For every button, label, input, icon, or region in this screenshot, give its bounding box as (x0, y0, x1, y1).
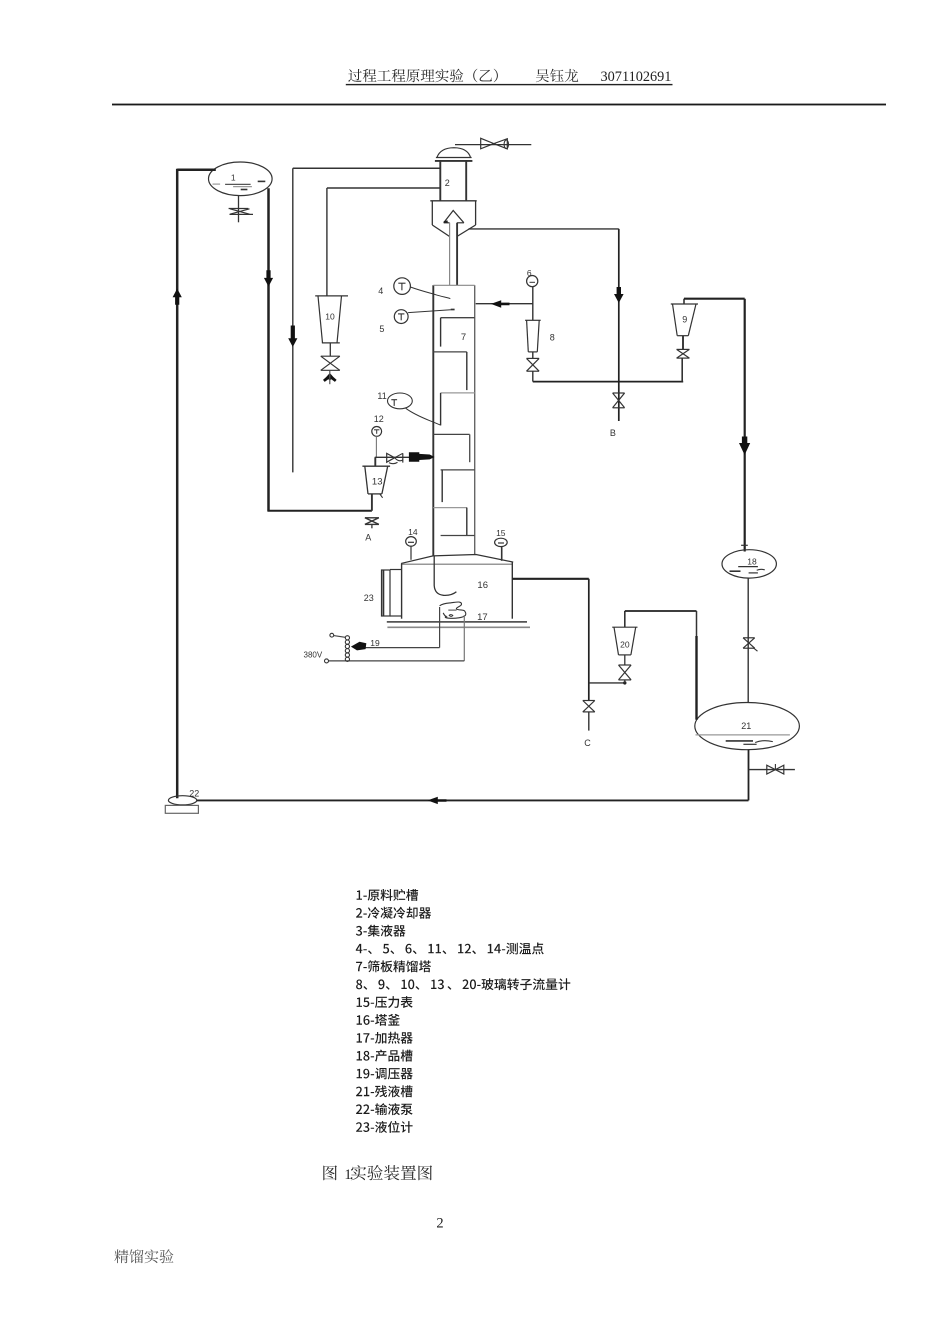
pump 22 base (165, 805, 198, 813)
svg-text:23: 23 (364, 593, 374, 603)
vapour arrow hollow in collector 3 (444, 211, 464, 223)
flow arrow left on bottom return line (428, 797, 447, 804)
svg-text:2: 2 (436, 1216, 443, 1232)
feed tank 1 liquid level marks (225, 183, 251, 185)
vapour duct left wall (449, 223, 451, 285)
collector 3 left wall (431, 201, 433, 225)
regulator 19 coil circles (345, 636, 349, 640)
vent valve disc (504, 140, 508, 149)
residue tank 21 level dashes (726, 740, 753, 742)
feed tank 1 drain stub pipe (238, 196, 240, 223)
pressure gauge 15 stem (501, 547, 503, 561)
residue riser down to valve C (588, 579, 590, 701)
legend line 22-输液泵 (356, 1103, 413, 1115)
reboiler outlet line to the right (512, 578, 589, 580)
return pipe into tank 1 (177, 169, 216, 172)
downcomer 2 (466, 352, 468, 390)
valve between tank 18 and tank 21 (743, 637, 755, 639)
terminal link wire (334, 636, 346, 638)
sight glass 23 top stub (390, 569, 402, 571)
branch line to rotameter 20 (589, 682, 625, 684)
flow arrow down on distillate riser (614, 287, 624, 303)
junction dot at rotameter 20 branch (623, 681, 626, 684)
svg-text:10: 10 (325, 312, 335, 322)
liquid gather line between rotameters 8 and 9 (533, 381, 683, 383)
tray 4 (433, 433, 469, 435)
feed arrow black into column (409, 452, 435, 462)
downcomer 5 (441, 470, 443, 502)
rotameter 9 outlet stub (682, 336, 684, 350)
heater power wire 2 vertical (463, 615, 465, 661)
vapour duct right wall (456, 223, 458, 285)
header name text 吴钰龙 (536, 69, 578, 82)
tick near tank 18 inlet (741, 544, 748, 546)
pipe down into tank 21 (696, 611, 698, 636)
tray 1 (441, 317, 475, 319)
temperature point 12 stem (375, 436, 377, 457)
product right riser down to tank 18 (744, 299, 746, 552)
footer text 精馏实验 (114, 1249, 173, 1263)
legend line 1-原料贮槽 (357, 889, 419, 901)
svg-text:6: 6 (527, 268, 532, 278)
temperature point 12 circle (372, 427, 382, 437)
condenser 2 dome base lines (436, 157, 472, 159)
header horizontal rule (112, 104, 886, 106)
condenser 2 vent line (455, 144, 531, 146)
rotameter 20 top stub (624, 611, 626, 627)
product top line to right riser (684, 298, 745, 300)
reboiler 16 right wall (511, 562, 513, 619)
legend line 16-塔釜 (357, 1014, 400, 1026)
rotameter 8 outlet stub (532, 352, 534, 359)
pressure gauge 15 circle (495, 538, 508, 546)
residue tank 21 ellipse (695, 703, 800, 750)
collector 3 right wall (475, 201, 477, 225)
legend line 7-筛板精馏塔 (356, 960, 431, 972)
valve below rotameter 20 (619, 664, 632, 666)
svg-text:4: 4 (378, 286, 383, 296)
tank 21 bottom outlet pipe (748, 750, 750, 801)
legend line 17-加热器 (357, 1032, 413, 1044)
product tank 18 level marks (738, 566, 758, 568)
svg-text:15: 15 (496, 528, 506, 538)
column 7 top edge (433, 284, 474, 286)
pump 22 ellipse (168, 796, 196, 805)
column 7 right wall (474, 285, 476, 554)
legend line 4-、5、6、11、12、14-测温点 (356, 943, 544, 955)
leader line from T11 into column (406, 408, 441, 425)
reboiler 16 left wall (401, 563, 403, 618)
heater 17 element blob (440, 602, 466, 618)
rotameter 13 bottom stub (371, 494, 373, 511)
feed valve bowtie (387, 453, 395, 462)
svg-text:14: 14 (408, 527, 418, 537)
svg-text:16: 16 (477, 580, 488, 591)
downcomer 1 (440, 318, 442, 347)
rotameter 8 funnel (525, 319, 541, 321)
residue tank 21 liquid level chord (696, 734, 790, 736)
feed stub from line down into rotameter 13 (374, 457, 376, 466)
cooling water drain riser (292, 168, 294, 472)
cooling water second line to condenser (327, 187, 440, 189)
tray 3 (441, 392, 475, 394)
rotameter 20 funnel (612, 626, 637, 628)
collector 3 right slant (457, 225, 476, 237)
legend line 8、9、10、13、20-玻璃转子流量计 (356, 978, 570, 990)
reboiler base line upper (387, 621, 527, 623)
legend line 18-产品槽 (357, 1050, 413, 1062)
flow arrow down on feed pipe (264, 270, 273, 286)
valve below rotameter 8 (527, 357, 540, 359)
flow arrow down on drain riser (288, 326, 297, 348)
flow arrow up on left riser (173, 289, 182, 305)
feed line into column (375, 456, 434, 458)
feed tank 1 ellipse (209, 162, 273, 196)
rotameter 10 funnel (315, 295, 348, 297)
tank 21 drain valve bowtie (767, 765, 776, 774)
svg-text:21: 21 (741, 721, 751, 731)
flow arrow down on product riser (739, 437, 750, 456)
temperature point 14 stem (410, 546, 412, 560)
vent valve bowtie (481, 138, 494, 149)
tray 7 (441, 535, 475, 537)
svg-text:17: 17 (477, 612, 488, 623)
svg-text:C: C (584, 738, 591, 748)
svg-text:2: 2 (445, 178, 450, 188)
feed pipe bottom horizontal run (267, 510, 372, 512)
collector 3 top edge (430, 200, 476, 202)
legend line 2-冷凝冷却器 (356, 907, 431, 919)
temperature point 5 circle (394, 310, 408, 324)
valve C hourglass (583, 700, 595, 702)
tank 21 side drain stub (749, 769, 795, 771)
legend line 15-压力表 (357, 996, 413, 1008)
valve B hourglass (613, 392, 625, 394)
svg-text:8: 8 (550, 333, 555, 343)
svg-text:11: 11 (377, 391, 386, 401)
condenser 2 shell walls (439, 161, 441, 201)
temperature point 6 stem (532, 287, 534, 321)
svg-text:B: B (610, 428, 616, 438)
downcomer seal hook inside reboiler (434, 556, 456, 595)
reboiler 16 dome outline (401, 555, 513, 564)
product tank 18 ellipse (722, 550, 776, 578)
reflux return arrow (491, 300, 510, 308)
heater power wire 1 horizontal (362, 647, 440, 649)
header underline (346, 84, 673, 85)
reboiler base line lower (387, 626, 530, 628)
svg-text:7: 7 (461, 332, 466, 343)
rotameter 10 outlet stub (329, 343, 331, 356)
svg-text:19: 19 (370, 638, 380, 648)
valve below rotameter 10 (321, 355, 340, 357)
pipe from tank 18 down to tank 21 (747, 578, 749, 702)
temperature point 11 ellipse (388, 393, 413, 409)
supply terminal top circle (330, 633, 334, 637)
temperature point 4 circle (394, 278, 411, 295)
svg-text:1: 1 (231, 173, 236, 183)
reboiler 16 top rim line (402, 563, 513, 565)
rotameter 13 funnel (362, 465, 390, 467)
drain arrow below valve 10 (323, 373, 337, 382)
tray 5 (441, 469, 475, 471)
feed tank 1 drain valve (229, 208, 249, 210)
heater power wire 1 vertical (439, 607, 441, 648)
svg-text:9: 9 (682, 315, 687, 325)
column 7 left wall (432, 285, 434, 556)
figure caption 图 1.实验装置图 (323, 1165, 337, 1180)
cooling water top line to condenser (293, 167, 441, 169)
sight glass 23 thick left edge (382, 570, 384, 616)
feed pipe down from tank 1 (267, 188, 270, 511)
svg-text:380V: 380V (304, 650, 323, 659)
legend line 21-残液槽 (356, 1085, 413, 1097)
svg-text:22: 22 (189, 788, 199, 798)
temperature point 6 circle (527, 276, 538, 287)
stub from valve 9 to gather line (681, 358, 683, 382)
legend line 19-调压器 (357, 1068, 413, 1080)
stub from valve 8 to gather line (532, 371, 534, 381)
svg-text:12: 12 (374, 414, 384, 424)
regulator 19 wiper arrow (351, 642, 366, 651)
svg-text:5: 5 (379, 324, 384, 334)
distillate riser down to valve B (618, 229, 620, 421)
reflux line from collector 3 (469, 228, 619, 230)
svg-text:20: 20 (620, 639, 630, 649)
leader line from T4 into column (410, 287, 450, 299)
temperature point 14 circle (406, 537, 417, 547)
rotameter 20 overhead line (625, 610, 697, 612)
tray 2 (433, 351, 467, 353)
valve A hourglass (365, 517, 379, 519)
sight glass 23 bottom stub (390, 615, 402, 617)
leader line from T5 into column (408, 310, 451, 313)
svg-text:13: 13 (372, 476, 383, 487)
legend line 23-液位计 (356, 1121, 413, 1133)
pipe down to rotameter 10 (326, 188, 328, 296)
rotameter 9 funnel (671, 303, 698, 305)
valve below rotameter 9 (677, 348, 690, 350)
tray 6 (433, 507, 467, 509)
sight glass 23 outer rectangle (382, 570, 391, 616)
reflux return line into column (476, 303, 533, 305)
collector 3 left slant (432, 225, 449, 237)
svg-text:18: 18 (747, 556, 757, 566)
condenser 2 dome arc (437, 148, 471, 158)
downcomer 6 (466, 508, 468, 536)
downcomer 3 (440, 393, 442, 426)
header title text 过程工程原理实验（乙） (348, 69, 498, 83)
rotameter 9 inlet stub from top line (683, 299, 685, 304)
heater power wire 2 horizontal (328, 660, 464, 662)
bottom return line from tank 21 to pump 22 (197, 799, 749, 801)
downcomer 4 (469, 434, 471, 462)
legend line 3-集液器 (356, 925, 406, 937)
svg-text:A: A (365, 533, 371, 543)
left riser pipe from pump 22 to tank 1 (176, 169, 179, 799)
valve C outlet stub (588, 712, 590, 731)
supply terminal bottom circle (325, 659, 329, 663)
svg-text:3071102691: 3071102691 (601, 69, 672, 85)
